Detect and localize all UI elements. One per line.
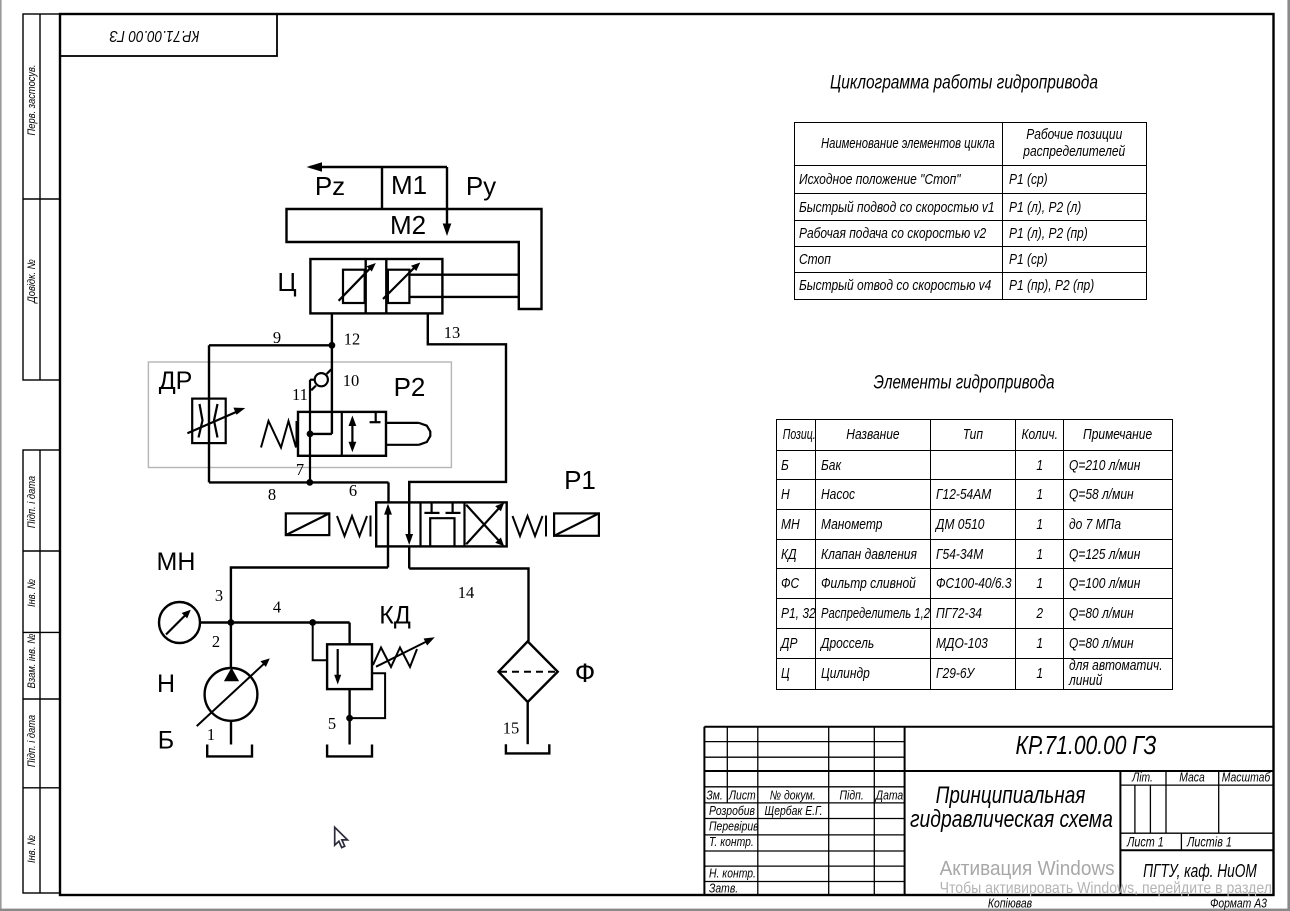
svg-text:10: 10	[343, 371, 360, 390]
svg-text:Формат А3: Формат А3	[1210, 896, 1267, 910]
svg-text:M2: M2	[390, 210, 426, 240]
svg-text:Ц: Ц	[277, 267, 296, 297]
svg-text:M1: M1	[391, 170, 427, 200]
svg-text:Дата: Дата	[874, 788, 904, 802]
svg-text:Зм.: Зм.	[706, 788, 722, 802]
svg-text:Т. контр.: Т. контр.	[709, 835, 754, 849]
svg-text:Pz: Pz	[315, 171, 345, 201]
svg-text:9: 9	[273, 328, 281, 347]
svg-text:гидравлическая схема: гидравлическая схема	[910, 805, 1113, 833]
svg-text:Розробив: Розробив	[709, 804, 755, 818]
svg-text:Лист 1: Лист 1	[1126, 834, 1164, 849]
svg-text:1: 1	[207, 725, 215, 744]
svg-text:Py: Py	[466, 171, 496, 201]
svg-text:2: 2	[212, 632, 220, 651]
svg-text:5: 5	[328, 714, 336, 733]
svg-text:ПГТУ, каф. НиОМ: ПГТУ, каф. НиОМ	[1143, 861, 1257, 881]
svg-text:Активация Windows: Активация Windows	[940, 858, 1115, 881]
svg-text:Щербак Е.Г.: Щербак Е.Г.	[765, 804, 823, 818]
svg-text:Чтобы активировать Windows, пе: Чтобы активировать Windows, перейдите в …	[940, 879, 1272, 897]
svg-text:Листів 1: Листів 1	[1186, 834, 1232, 849]
svg-text:Ф: Ф	[575, 658, 596, 688]
svg-text:КД: КД	[379, 601, 411, 629]
svg-text:МН: МН	[157, 548, 196, 576]
svg-text:Элементы гидропривода: Элементы гидропривода	[874, 371, 1055, 393]
svg-text:Літ.: Літ.	[1131, 770, 1153, 784]
svg-text:P2: P2	[394, 372, 426, 402]
svg-text:Б: Б	[158, 727, 174, 755]
svg-text:Затв.: Затв.	[709, 881, 738, 895]
svg-text:15: 15	[503, 719, 520, 738]
svg-text:№ докум.: № докум.	[770, 788, 816, 802]
svg-text:8: 8	[268, 485, 276, 504]
svg-text:11: 11	[292, 385, 308, 404]
svg-text:Н. контр.: Н. контр.	[709, 866, 756, 880]
svg-text:Н: Н	[157, 670, 175, 698]
svg-text:КР.71.00.00 ГЗ: КР.71.00.00 ГЗ	[1016, 732, 1157, 761]
svg-text:7: 7	[296, 460, 304, 479]
svg-text:Копіював: Копіював	[988, 896, 1032, 910]
svg-text:6: 6	[349, 481, 357, 500]
svg-text:12: 12	[344, 330, 361, 349]
svg-text:13: 13	[444, 323, 461, 342]
svg-text:Лист: Лист	[728, 788, 756, 802]
svg-text:Масштаб: Масштаб	[1222, 770, 1271, 784]
svg-text:3: 3	[215, 586, 223, 605]
svg-text:Циклограмма работы гидропривод: Циклограмма работы гидропривода	[830, 71, 1098, 93]
svg-text:Підп.: Підп.	[840, 788, 864, 802]
svg-text:Маса: Маса	[1179, 770, 1205, 784]
svg-text:4: 4	[273, 598, 281, 617]
svg-text:ДР: ДР	[159, 367, 193, 395]
svg-text:P1: P1	[564, 465, 596, 495]
svg-text:Перевірив: Перевірив	[709, 819, 759, 833]
svg-text:14: 14	[458, 583, 475, 602]
